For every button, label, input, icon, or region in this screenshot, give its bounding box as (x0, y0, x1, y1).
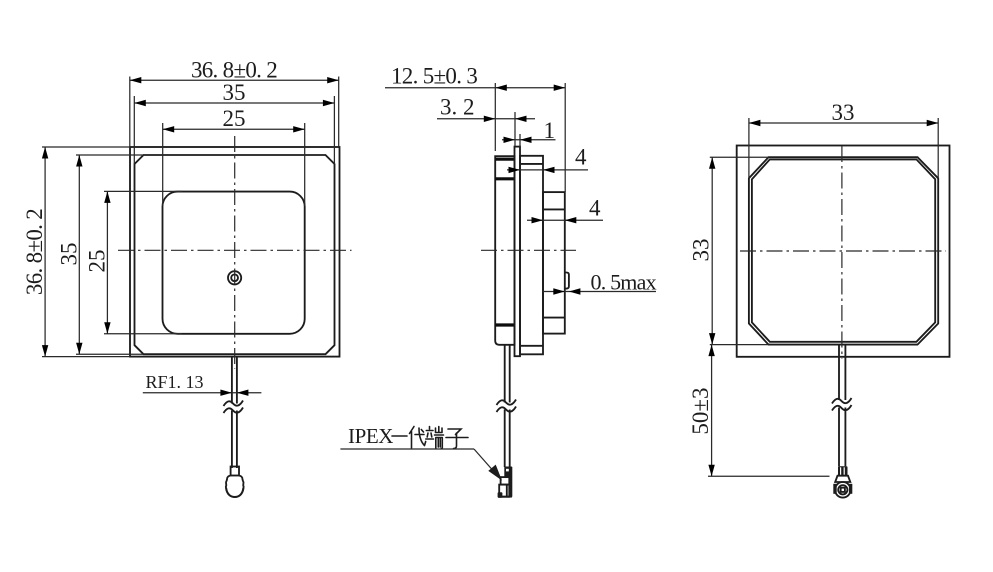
svg-text:25: 25 (223, 106, 246, 131)
svg-text:4: 4 (589, 196, 601, 221)
svg-text:36. 8±0. 2: 36. 8±0. 2 (191, 58, 277, 83)
svg-text:RF1. 13: RF1. 13 (146, 372, 204, 392)
svg-text:12. 5±0. 3: 12. 5±0. 3 (391, 63, 477, 88)
svg-text:33: 33 (689, 239, 714, 262)
svg-text:IPEX: IPEX (348, 424, 393, 448)
svg-text:35: 35 (223, 80, 246, 105)
svg-text:36. 8±0. 2: 36. 8±0. 2 (22, 209, 47, 295)
svg-text:50±3: 50±3 (688, 387, 713, 434)
svg-text:25: 25 (85, 250, 110, 273)
svg-text:0. 5max: 0. 5max (591, 269, 657, 294)
svg-text:1: 1 (544, 118, 556, 143)
svg-text:3. 2: 3. 2 (440, 94, 475, 119)
svg-text:35: 35 (57, 243, 82, 266)
svg-text:4: 4 (575, 145, 587, 170)
svg-text:33: 33 (832, 100, 855, 125)
